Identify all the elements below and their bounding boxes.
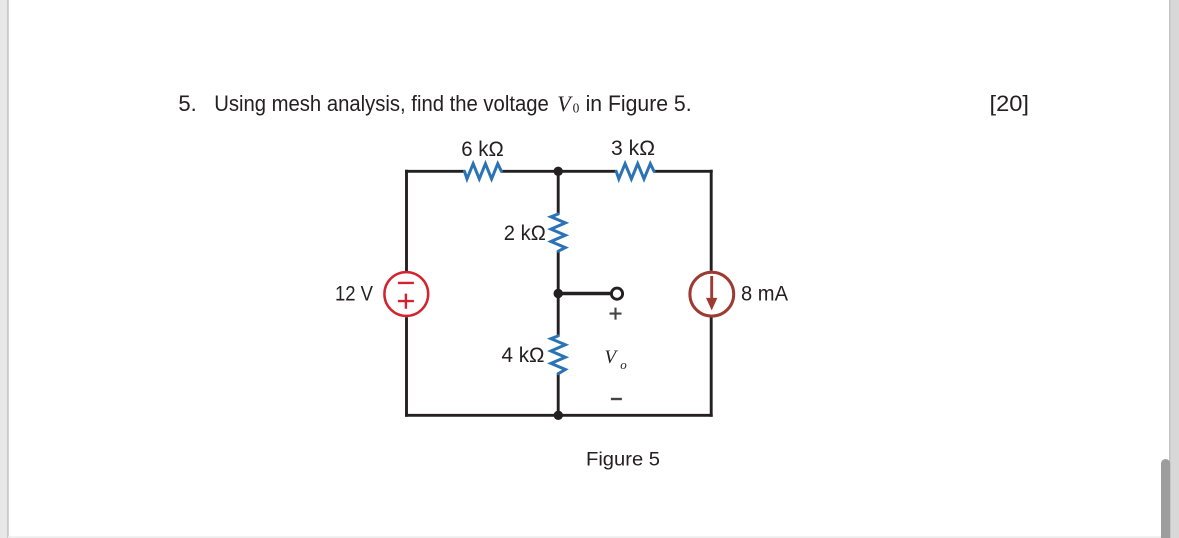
svg-text:6 kΩ: 6 kΩ xyxy=(461,137,504,161)
resistor R1 6 kOhm (top-left, horizontal zigzag) xyxy=(465,164,502,179)
wire: right vertical below 8mA source xyxy=(710,318,713,417)
minus sign inside 12V source xyxy=(398,282,414,284)
open terminal for Vo xyxy=(611,288,622,299)
svg-text:in Figure 5.: in Figure 5. xyxy=(586,91,692,116)
plus sign inside 12V source xyxy=(398,294,414,309)
wire: left vertical above 12V source xyxy=(405,170,408,271)
arrow inside current source xyxy=(710,276,713,300)
svg-text:4 kΩ: 4 kΩ xyxy=(502,343,545,367)
wire: top-middle segment (6k resistor to 3k resistor, through top node) xyxy=(501,170,617,173)
svg-text:2 kΩ: 2 kΩ xyxy=(504,221,546,245)
plus sign of Vo xyxy=(610,308,622,320)
svg-text:3 kΩ: 3 kΩ xyxy=(611,136,655,160)
svg-text:o: o xyxy=(620,357,627,372)
wire: right vertical above 8mA source xyxy=(710,170,713,271)
voltage source V1 12V (red circle) xyxy=(384,272,428,316)
right page-edge gray band xyxy=(1170,0,1179,538)
wire: middle branch bottom (4k resistor to bottom node) xyxy=(557,374,560,416)
wire: stub from middle node to Vo terminal xyxy=(558,292,611,296)
bottom faint edge line xyxy=(8,536,1179,538)
svg-text:Figure 5: Figure 5 xyxy=(586,449,660,471)
wire: bottom rail xyxy=(405,414,713,417)
resistor R4 4 kOhm (middle branch lower, vertical zigzag) xyxy=(551,336,566,374)
svg-text:5.: 5. xyxy=(178,91,196,116)
wire: middle branch top (top node to 2k resistor) xyxy=(557,171,560,214)
wire: middle branch center (2k resistor to 4k resistor through middle node) xyxy=(557,251,560,336)
resistor R3 2 kOhm (middle branch upper, vertical zigzag) xyxy=(551,214,566,251)
svg-text:12 V: 12 V xyxy=(335,282,374,306)
minus sign of Vo xyxy=(611,398,622,400)
svg-text:Using mesh analysis, find the: Using mesh analysis, find the voltage xyxy=(214,91,549,116)
node B (middle junction dot) xyxy=(554,289,563,298)
node A (top junction dot) xyxy=(554,167,563,176)
wire: top-right segment (3k resistor to right corner) xyxy=(654,170,713,173)
current source I1 8mA (dark red circle) xyxy=(690,272,734,316)
scrollbar thumb xyxy=(1161,459,1170,538)
svg-text:[20]: [20] xyxy=(990,91,1030,116)
wire: top-left segment (left corner to 6k resistor) xyxy=(405,170,465,173)
wire: left vertical below 12V source xyxy=(405,317,408,417)
left page-edge gray band xyxy=(0,0,8,538)
svg-text:8 mA: 8 mA xyxy=(741,282,789,306)
svg-text:0: 0 xyxy=(573,100,580,115)
resistor R2 3 kOhm (top-right, horizontal zigzag) xyxy=(616,164,654,179)
node C (bottom junction dot) xyxy=(554,411,563,420)
